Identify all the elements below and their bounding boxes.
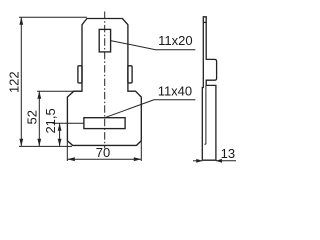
svg-text:122: 122: [7, 71, 22, 93]
svg-text:21,5: 21,5: [43, 108, 58, 133]
svg-text:52: 52: [25, 110, 40, 124]
svg-text:11x40: 11x40: [158, 84, 192, 99]
svg-text:13: 13: [221, 146, 235, 161]
svg-text:70: 70: [96, 145, 110, 160]
svg-text:11x20: 11x20: [158, 33, 192, 48]
